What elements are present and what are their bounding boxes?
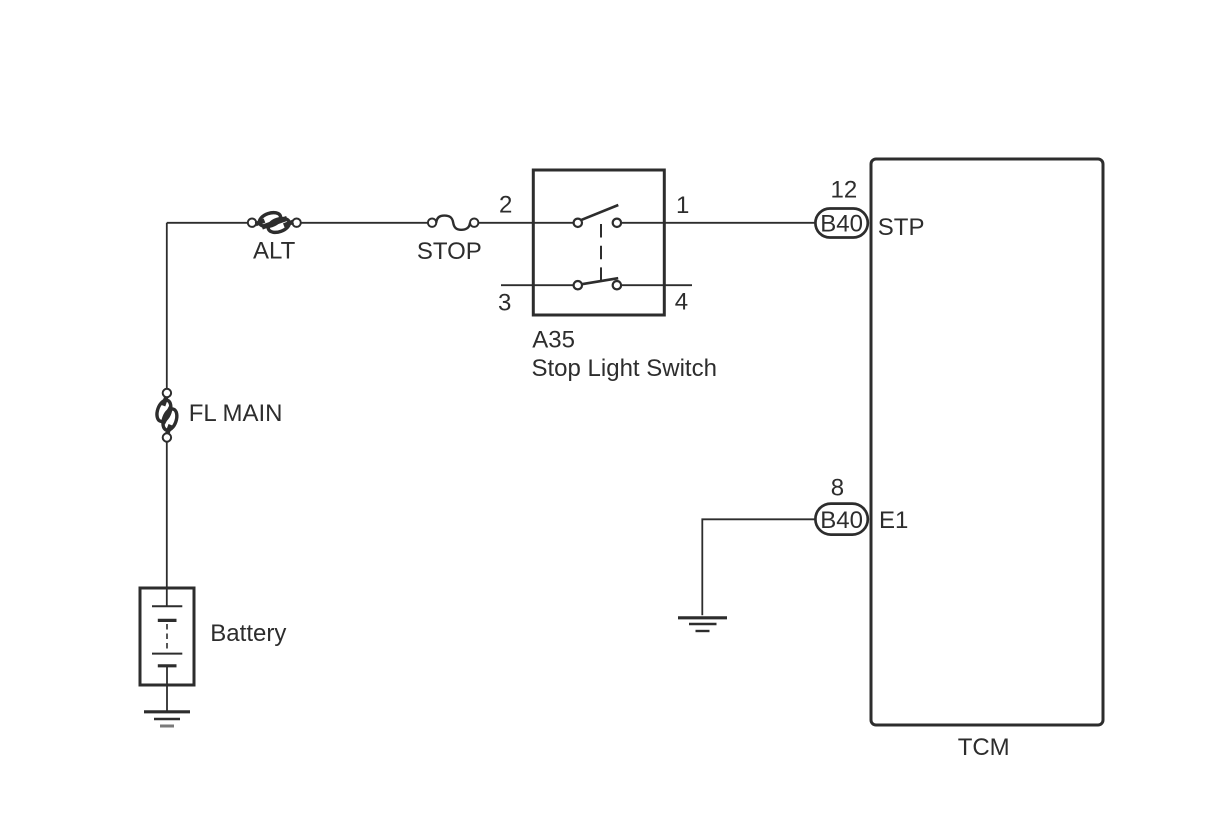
wire battery to ground — [166, 666, 168, 711]
connector B40 pin 8 — [815, 504, 867, 535]
svg-text:E1: E1 — [879, 507, 908, 534]
svg-text:B40: B40 — [820, 211, 863, 238]
switch A35 top blade — [581, 205, 619, 220]
switch A35 bottom contact left — [574, 281, 582, 289]
wire FL MAIN to battery — [166, 442, 168, 607]
ground battery — [144, 712, 190, 726]
wire fuse STOP to switch pin 2 contact — [478, 222, 573, 224]
svg-text:Battery: Battery — [210, 620, 286, 647]
wire pin 3 stub — [501, 284, 574, 286]
svg-text:12: 12 — [831, 177, 858, 204]
fusible link FL MAIN — [154, 389, 179, 442]
fuse STOP — [428, 216, 479, 230]
wire main horizontal from corner to fuse ALT — [167, 222, 248, 224]
svg-text:ALT: ALT — [253, 238, 296, 265]
battery — [140, 588, 194, 685]
svg-text:1: 1 — [676, 192, 689, 219]
wire fuse ALT to fuse STOP — [301, 222, 428, 224]
svg-text:2: 2 — [499, 191, 512, 218]
svg-text:FL MAIN: FL MAIN — [189, 400, 283, 427]
svg-text:Stop Light Switch: Stop Light Switch — [532, 355, 717, 382]
switch A35 top contact right — [613, 219, 621, 227]
svg-text:TCM: TCM — [958, 734, 1010, 761]
svg-text:STP: STP — [878, 214, 925, 241]
switch A35 top contact left — [574, 219, 582, 227]
TCM box — [871, 159, 1103, 725]
wire pin 4 stub — [621, 284, 692, 286]
svg-text:A35: A35 — [532, 326, 575, 353]
svg-text:STOP: STOP — [417, 238, 482, 265]
fuse ALT — [248, 210, 301, 235]
switch A35 bottom contact right — [613, 281, 621, 289]
switch A35 bottom blade — [582, 278, 618, 284]
switch A35 body — [533, 170, 664, 315]
svg-text:8: 8 — [831, 474, 844, 501]
switch A35 dashed link — [600, 224, 602, 281]
svg-text:4: 4 — [675, 289, 688, 316]
ground E1 — [678, 618, 727, 631]
wire E1 to ground — [702, 519, 814, 615]
wire main vertical to FL MAIN — [166, 223, 168, 389]
connector B40 pin 12 — [815, 209, 867, 238]
svg-text:3: 3 — [498, 290, 511, 317]
svg-text:B40: B40 — [820, 507, 863, 534]
wire switch pin 1 to connector B40 — [621, 222, 814, 224]
